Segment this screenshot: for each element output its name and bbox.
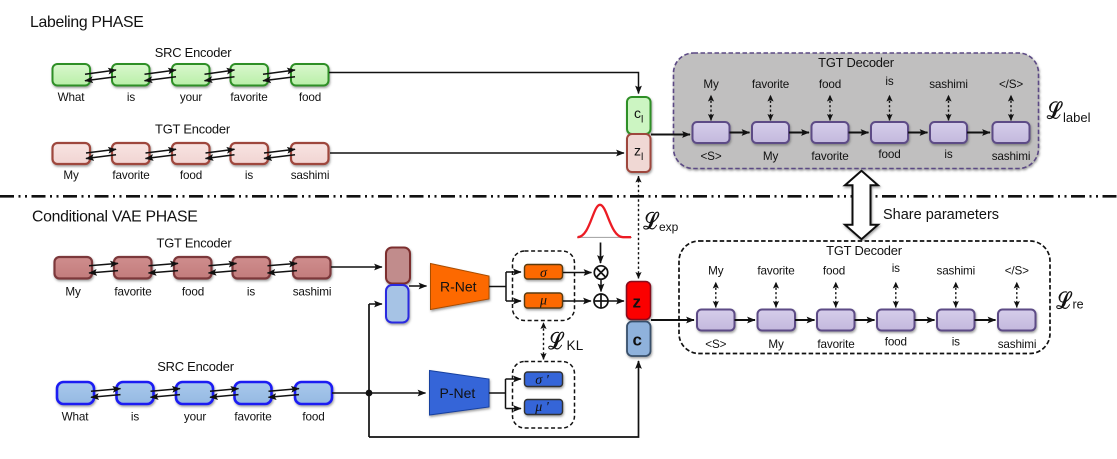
svg-text:Conditional VAE PHASE: Conditional VAE PHASE bbox=[32, 209, 198, 226]
darkred box 3 bbox=[174, 257, 212, 279]
svg-text:σ ': σ ' bbox=[535, 373, 549, 388]
svg-text:sashimi: sashimi bbox=[291, 169, 330, 182]
box z bbox=[627, 282, 651, 320]
blue box 3 bbox=[176, 382, 213, 404]
svg-text:favorite: favorite bbox=[230, 91, 267, 104]
blue box 4 bbox=[235, 382, 272, 404]
svg-text:food: food bbox=[180, 169, 202, 182]
svg-text:</S>: </S> bbox=[1005, 265, 1029, 278]
blue state box bbox=[386, 285, 409, 323]
R-Net output bracket bbox=[489, 272, 506, 301]
svg-text:sashimi: sashimi bbox=[992, 150, 1031, 163]
svg-text:favorite: favorite bbox=[234, 411, 271, 424]
wire blue row to P-Net bbox=[332, 392, 426, 394]
wire darkred row to red state box bbox=[331, 266, 382, 268]
TGT Decoder bottom dashed panel bbox=[679, 241, 1050, 354]
purple box B4 bbox=[877, 310, 915, 331]
svg-text:exp: exp bbox=[659, 220, 679, 234]
share parameters double arrow bbox=[845, 171, 878, 239]
purple box B6 bbox=[998, 310, 1036, 331]
svg-text:food: food bbox=[302, 411, 324, 424]
svg-text:TGT Encoder: TGT Encoder bbox=[155, 122, 231, 137]
purple box T5 bbox=[930, 122, 967, 143]
svg-text:Labeling PHASE: Labeling PHASE bbox=[30, 14, 143, 31]
wire green row to c_l bbox=[329, 73, 639, 94]
svg-text:sashimi: sashimi bbox=[293, 286, 332, 299]
sigma' box bbox=[525, 372, 563, 387]
dotted arrow z to z_l bbox=[638, 176, 640, 279]
svg-text:P-Net: P-Net bbox=[440, 385, 476, 401]
R-Net trapezoid bbox=[431, 264, 490, 310]
loss L_re bbox=[1057, 292, 1084, 312]
svg-text:food: food bbox=[819, 78, 841, 91]
mu' box bbox=[525, 400, 563, 415]
wire pink row to z_l bbox=[330, 152, 624, 154]
TGT encoder pink boxes (top) bbox=[53, 143, 329, 164]
junction node bbox=[366, 390, 373, 397]
words under darkred row bbox=[65, 286, 331, 299]
svg-text:R-Net: R-Net bbox=[440, 279, 477, 295]
arrow mu to oplus bbox=[563, 300, 591, 302]
green box 2 bbox=[112, 64, 150, 86]
words under green row bbox=[58, 91, 321, 104]
pink box 1 bbox=[53, 143, 91, 164]
svg-text:TGT Encoder: TGT Encoder bbox=[157, 236, 233, 251]
mu box bbox=[525, 293, 563, 308]
words below bottom decoder bbox=[705, 336, 1036, 352]
svg-text:My: My bbox=[763, 150, 779, 163]
TGT Decoder top dashed panel bbox=[674, 53, 1039, 169]
bottom decoder purple boxes bbox=[697, 310, 1036, 331]
purple box B2 bbox=[758, 310, 796, 331]
svg-text:<S>: <S> bbox=[705, 338, 726, 351]
svg-text:sashimi: sashimi bbox=[998, 338, 1037, 351]
svg-text:SRC Encoder: SRC Encoder bbox=[157, 359, 235, 374]
svg-text:your: your bbox=[184, 411, 206, 424]
svg-text:TGT Decoder: TGT Decoder bbox=[818, 55, 895, 70]
svg-text:favorite: favorite bbox=[114, 286, 151, 299]
svg-text:σ: σ bbox=[540, 266, 548, 281]
blue box 2 bbox=[117, 382, 154, 404]
svg-text:is: is bbox=[885, 75, 893, 88]
svg-text:food: food bbox=[182, 286, 204, 299]
box z_l bbox=[627, 134, 651, 172]
svg-text:your: your bbox=[180, 91, 202, 104]
svg-text:sashimi: sashimi bbox=[937, 265, 976, 278]
wire to blue state box bbox=[369, 303, 382, 305]
svg-text:Share parameters: Share parameters bbox=[883, 207, 999, 223]
otimes (elementwise product) bbox=[594, 266, 607, 279]
pink box 4 bbox=[231, 143, 269, 164]
svg-text:is: is bbox=[131, 411, 139, 424]
green box 3 bbox=[172, 64, 210, 86]
pink box 2 bbox=[112, 143, 150, 164]
bottom wire junction to c bbox=[369, 361, 639, 437]
svg-text:My: My bbox=[65, 286, 81, 299]
dotted arrows bottom decoder bbox=[716, 282, 1017, 308]
bidirectional arrows green row bbox=[85, 70, 295, 81]
svg-text:favorite: favorite bbox=[757, 265, 794, 278]
svg-text:favorite: favorite bbox=[752, 78, 789, 91]
svg-text:favorite: favorite bbox=[817, 338, 854, 351]
purple box B5 bbox=[937, 310, 975, 331]
purple box B3 bbox=[817, 310, 855, 331]
svg-text:is: is bbox=[247, 286, 255, 299]
svg-text:What: What bbox=[58, 91, 86, 104]
svg-text:food: food bbox=[823, 265, 845, 278]
darkred box 4 bbox=[233, 257, 271, 279]
svg-text:My: My bbox=[703, 78, 719, 91]
loss L_exp bbox=[644, 212, 679, 234]
dashed container sigma/mu bbox=[513, 251, 575, 321]
svg-text:food: food bbox=[878, 148, 900, 161]
svg-text:is: is bbox=[892, 262, 900, 275]
svg-text:favorite: favorite bbox=[112, 169, 149, 182]
arrows between top decoder boxes bbox=[651, 133, 990, 135]
arrows between bottom decoder boxes bbox=[735, 319, 996, 321]
words under pink row bbox=[63, 169, 329, 182]
box c bbox=[627, 322, 651, 357]
arrow sigma to otimes bbox=[563, 272, 592, 274]
svg-text:μ: μ bbox=[539, 294, 547, 309]
words above top decoder bbox=[703, 75, 1023, 91]
TGT encoder dark red boxes (bottom) bbox=[55, 257, 331, 279]
words above bottom decoder bbox=[708, 262, 1029, 278]
SRC encoder green boxes (top) bbox=[53, 64, 329, 86]
purple box T6 bbox=[993, 122, 1030, 143]
loss L_label bbox=[1047, 102, 1091, 125]
pink box 3 bbox=[172, 143, 210, 164]
svg-text:My: My bbox=[63, 169, 79, 182]
svg-text:is: is bbox=[944, 148, 952, 161]
top decoder purple boxes bbox=[693, 122, 1030, 143]
svg-text:sashimi: sashimi bbox=[929, 78, 968, 91]
P-Net trapezoid bbox=[430, 371, 490, 416]
SRC encoder blue boxes (bottom) bbox=[57, 382, 332, 404]
svg-text:label: label bbox=[1063, 110, 1091, 125]
oplus (sum) bbox=[594, 294, 608, 308]
wire states to R-Net bbox=[409, 285, 427, 287]
box c_l bbox=[627, 97, 651, 134]
green box 1 bbox=[53, 64, 91, 86]
darkred box 1 bbox=[55, 257, 93, 279]
arrow otimes to oplus bbox=[600, 280, 602, 292]
dashed container sigma'/mu' bbox=[513, 362, 575, 429]
dash-dot phase divider bbox=[0, 195, 1117, 198]
bidirectional arrows blue row bbox=[91, 389, 299, 398]
svg-text:My: My bbox=[768, 338, 784, 351]
gaussian curve bbox=[577, 236, 632, 238]
arrow z/c to bottom decoder bbox=[651, 319, 694, 321]
blue box 5 bbox=[295, 382, 332, 404]
P-Net output bracket bbox=[489, 379, 506, 409]
pink box 5 bbox=[291, 143, 329, 164]
green box 5 bbox=[291, 64, 329, 86]
svg-text:is: is bbox=[952, 336, 960, 349]
svg-text:SRC Encoder: SRC Encoder bbox=[155, 45, 233, 60]
svg-text:c: c bbox=[633, 331, 642, 350]
svg-text:favorite: favorite bbox=[811, 150, 848, 163]
svg-text:z: z bbox=[633, 293, 642, 312]
purple box B1 bbox=[697, 310, 735, 331]
purple box T3 bbox=[812, 122, 849, 143]
bidirectional arrows pink row bbox=[86, 149, 295, 158]
svg-text:My: My bbox=[708, 265, 724, 278]
svg-text:TGT Decoder: TGT Decoder bbox=[826, 243, 903, 258]
arrow oplus to z bbox=[609, 300, 625, 302]
words below top decoder bbox=[701, 148, 1031, 163]
dotted arrows top decoder bbox=[711, 95, 1011, 121]
svg-text:food: food bbox=[299, 91, 321, 104]
svg-text:μ ': μ ' bbox=[534, 400, 550, 415]
purple box T1 bbox=[693, 122, 730, 143]
svg-text:What: What bbox=[62, 411, 90, 424]
red state box bbox=[386, 248, 410, 284]
svg-text:is: is bbox=[245, 169, 253, 182]
darkred box 5 bbox=[293, 257, 331, 279]
green box 4 bbox=[231, 64, 269, 86]
svg-text:re: re bbox=[1073, 298, 1084, 312]
dotted arrow L_KL between containers bbox=[543, 323, 545, 360]
svg-text:<S>: <S> bbox=[701, 150, 722, 163]
vertical wire from junction up bbox=[368, 304, 370, 437]
loss L_KL bbox=[549, 332, 584, 353]
svg-text:</S>: </S> bbox=[999, 78, 1023, 91]
words under blue row bbox=[62, 411, 325, 424]
blue box 1 bbox=[57, 382, 94, 404]
svg-text:KL: KL bbox=[567, 338, 584, 353]
svg-text:is: is bbox=[127, 91, 135, 104]
svg-text:food: food bbox=[885, 336, 907, 349]
darkred box 2 bbox=[114, 257, 152, 279]
arrow gaussian to otimes bbox=[600, 243, 602, 264]
purple box T4 bbox=[871, 122, 908, 143]
sigma box bbox=[525, 265, 563, 280]
purple box T2 bbox=[752, 122, 789, 143]
bidirectional arrows darkred row bbox=[89, 263, 297, 273]
